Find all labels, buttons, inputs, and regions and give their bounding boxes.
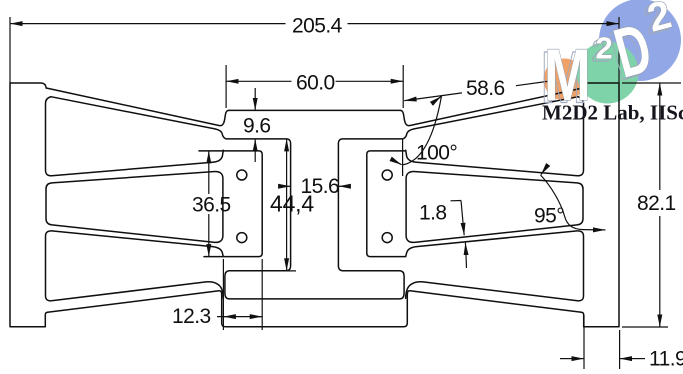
leader dimension 1.8 [419,201,467,269]
logo circle blue [599,0,681,81]
svg-text:95°: 95° [534,205,564,228]
svg-text:12.3: 12.3 [172,305,211,328]
dimension 205.4 [10,15,619,84]
dimension 36.5 [192,151,231,257]
slot 3 left: top edge flare, cap, bottom beam top edge [46,231,224,301]
svg-text:205.4: 205.4 [292,15,343,38]
right block outline [367,151,406,257]
top-right thin beam upper edge [400,88,583,126]
hole left block bottom [237,233,247,243]
svg-text:100°: 100° [416,142,457,165]
svg-text:11.9: 11.9 [649,348,683,371]
slot 2 left [46,172,223,243]
svg-text:60.0: 60.0 [296,71,335,94]
inner boundary: thin beams lower edges, band bottom, center strip, shoulders, bottom band top [51,97,578,299]
svg-text:M2D2 Lab, IISc: M2D2 Lab, IISc [542,101,683,125]
left block outline with extension lines [199,151,262,257]
logo letters M2D2 shadow [541,0,673,118]
hole left block top [237,170,247,180]
svg-text:58.6: 58.6 [466,77,505,100]
svg-text:44,4: 44,4 [270,191,314,217]
dimension 44.4 [270,139,314,271]
svg-text:36.5: 36.5 [192,194,231,217]
left bar [10,83,48,327]
dimension 58.6 (aligned) [404,77,551,101]
slot 2 right (mirror) [406,172,583,243]
top band top edge [229,109,400,111]
dimension 12.3 [172,259,262,330]
hole right block bottom [382,233,392,243]
slot 3 right (mirror) [406,231,584,301]
logo letters M2D2 [544,0,676,116]
angle dimension 95 deg [534,168,606,230]
svg-text:9.6: 9.6 [243,115,271,138]
slot 1 left: cap, bottom edge, right flare [46,97,224,176]
top-left thin beam upper edge [46,88,229,126]
dimension 82.1 [622,83,681,327]
dimension 11.9 [560,315,683,371]
svg-text:1.8: 1.8 [419,202,447,225]
slot 1 right (mirror) [406,97,584,176]
hole right block top [382,170,392,180]
angle dimension 100 deg [396,96,458,176]
dimension 60.0 [226,65,403,108]
svg-text:2: 2 [596,31,613,66]
svg-text:82.1: 82.1 [637,192,676,215]
dimension 15.6 [279,175,350,198]
logo circle green [577,42,639,104]
right bar [582,83,620,327]
logo circle orange [544,59,586,101]
bottom thin beams lower edges and bottom band [48,291,582,327]
dimension 9.6 [243,88,271,162]
